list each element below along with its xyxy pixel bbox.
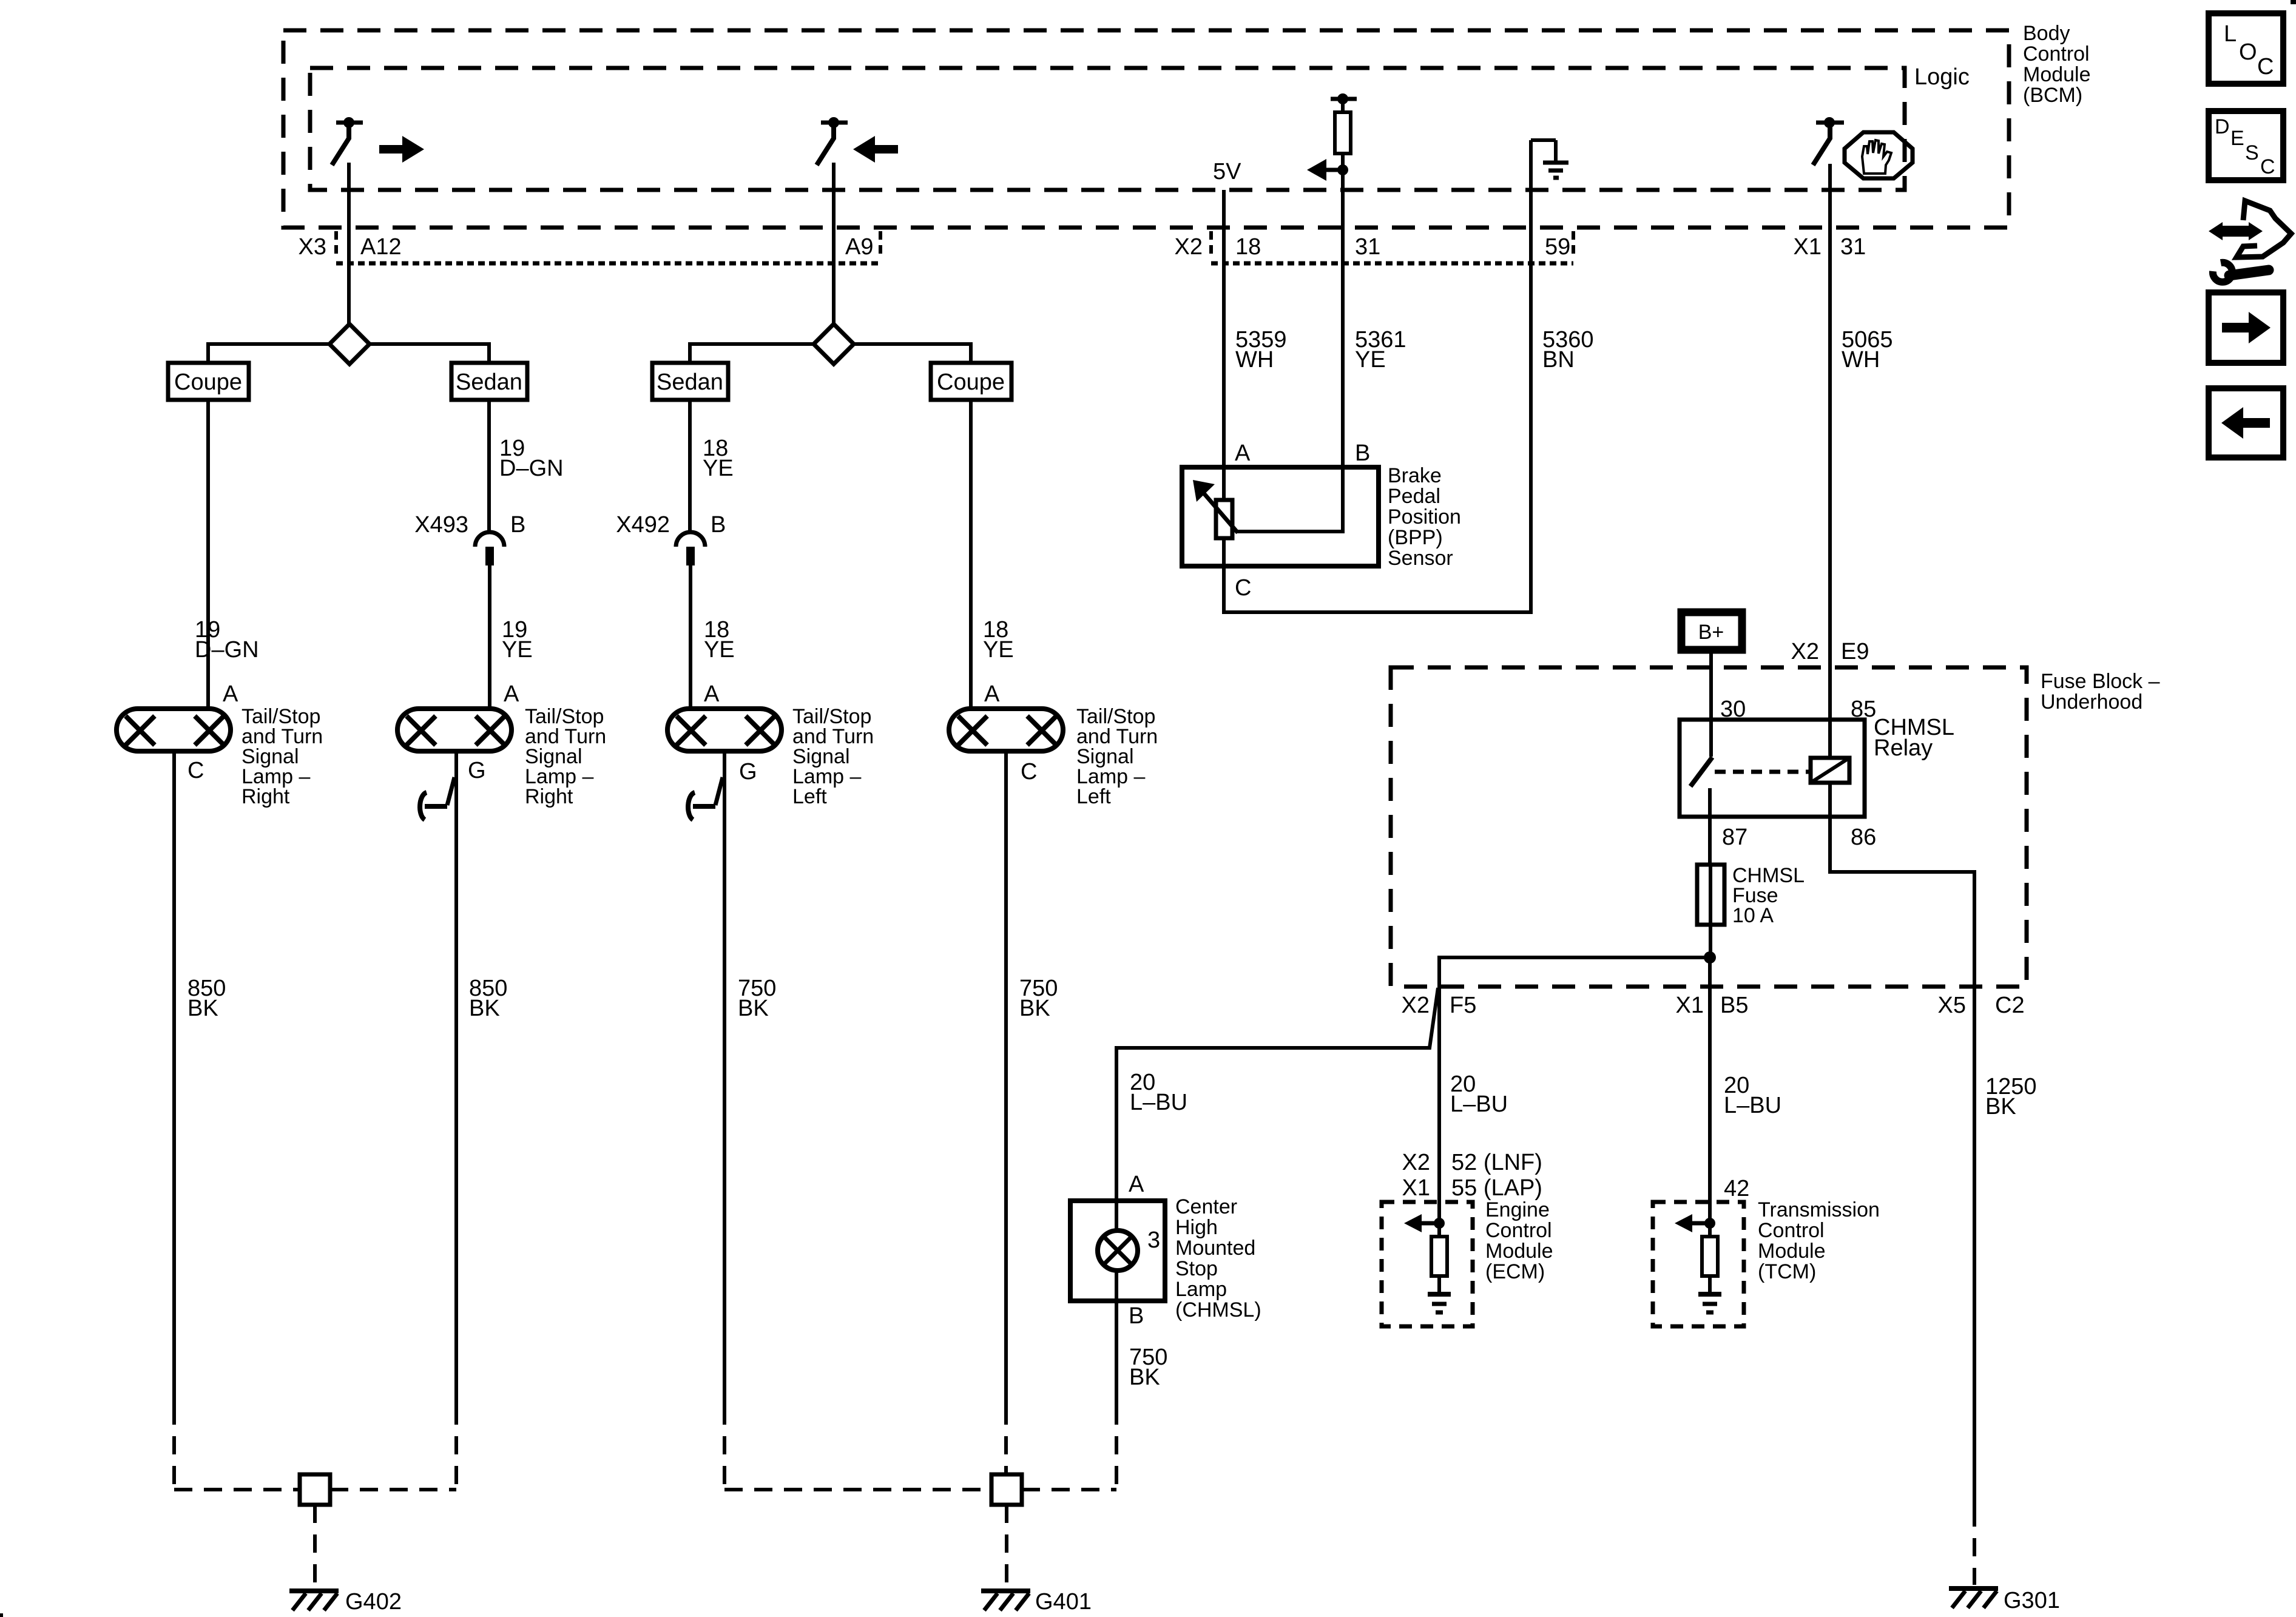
svg-text:E9: E9: [1841, 639, 1869, 664]
case ground tap symbol lamp3: [688, 777, 723, 820]
svg-text:A: A: [223, 681, 238, 707]
svg-text:YE: YE: [703, 456, 734, 481]
pin label A (BPP): [1235, 441, 1251, 466]
TCM junction dot: [1704, 1218, 1715, 1229]
svg-text:Mounted: Mounted: [1175, 1237, 1255, 1260]
wire label 5360 BN: [1542, 327, 1594, 373]
pin label B (X492): [711, 512, 726, 538]
svg-text:S: S: [2245, 141, 2259, 164]
pin label 31: [1355, 234, 1380, 260]
junction dot below fuse: [1704, 951, 1716, 964]
Logic dashed box: [310, 68, 1905, 190]
lamp E1 name: [241, 705, 323, 808]
stop hand octagon icon: [1845, 132, 1913, 178]
BPP sensor name: [1388, 464, 1461, 570]
dashed ground wire column 2: [454, 1406, 458, 1490]
svg-text:Left: Left: [792, 785, 827, 808]
svg-text:Sedan: Sedan: [657, 370, 723, 395]
svg-text:Right: Right: [241, 785, 290, 808]
svg-text:55 (LAP): 55 (LAP): [1451, 1175, 1542, 1201]
wire relay pin 86 to pin C2 (circuit 1250 BK): [1830, 783, 1974, 1508]
svg-text:(BCM): (BCM): [2023, 84, 2082, 107]
svg-text:BK: BK: [1985, 1094, 2016, 1119]
svg-text:A: A: [1235, 441, 1251, 466]
svg-text:L–BU: L–BU: [1130, 1090, 1187, 1115]
ECM name: [1485, 1198, 1553, 1283]
svg-text:D–GN: D–GN: [195, 637, 259, 663]
DESC nav button: [2209, 111, 2283, 180]
svg-text:Lamp: Lamp: [1175, 1278, 1227, 1301]
diamond splice node pair 2: [814, 324, 854, 364]
wire label 19 YE (column 2 lower): [502, 617, 533, 663]
svg-text:Center: Center: [1175, 1195, 1237, 1218]
svg-text:C: C: [2260, 155, 2275, 178]
svg-text:High: High: [1175, 1216, 1218, 1239]
svg-text:G401: G401: [1035, 1589, 1092, 1615]
svg-text:YE: YE: [502, 637, 533, 663]
wire branch to CHMSL lamp (circuit 20 L-BU): [1116, 988, 1438, 1201]
pin label A12: [360, 234, 402, 260]
wire fuse to junction: [1709, 925, 1712, 957]
in-line connector X493: [475, 532, 504, 565]
wire label 5361 YE: [1355, 327, 1406, 373]
back arrow nav button: [2209, 388, 2283, 457]
CHMSL fuse name: [1732, 864, 1805, 927]
internal rail bar above resistor: [1331, 97, 1357, 101]
X493 label: [414, 512, 468, 538]
svg-text:86: 86: [1851, 825, 1876, 850]
svg-text:(ECM): (ECM): [1485, 1260, 1545, 1283]
TCM internal ground: [1698, 1294, 1721, 1312]
svg-text:BK: BK: [1129, 1365, 1160, 1390]
svg-text:31: 31: [1840, 234, 1866, 260]
wire label 750 BK (column 4): [1019, 976, 1058, 1021]
CHMSL relay box: [1680, 720, 1865, 817]
svg-text:BK: BK: [738, 996, 769, 1021]
svg-text:YE: YE: [1355, 347, 1386, 373]
svg-text:Sedan: Sedan: [456, 370, 522, 395]
Sedan box 2: [652, 363, 728, 400]
feedback/repair icon double arrow: [2209, 222, 2263, 240]
svg-text:D: D: [2215, 115, 2230, 138]
svg-text:X1: X1: [1794, 234, 1822, 260]
pin label X5 (C2): [1938, 993, 1966, 1018]
svg-text:18: 18: [1235, 234, 1261, 260]
Sedan box 1: [451, 363, 527, 400]
pin label X2 52 (LNF): [1402, 1150, 1542, 1175]
feedback/repair icon component outline: [2237, 201, 2291, 257]
svg-text:Module: Module: [2023, 63, 2091, 86]
ground G301: [1949, 1588, 1998, 1608]
svg-text:Fuse Block –: Fuse Block –: [2041, 670, 2160, 693]
svg-text:BN: BN: [1542, 347, 1575, 373]
svg-text:X3: X3: [299, 234, 326, 260]
svg-text:E: E: [2230, 127, 2244, 150]
svg-text:X1: X1: [1402, 1175, 1430, 1201]
pin label A lamp4: [984, 681, 1000, 707]
pin label X2 (F5): [1402, 993, 1430, 1018]
wire Sedan2 to splice X492 (circuit 18 YE): [688, 400, 692, 532]
wire Coupe1 to lamp1 pin A (circuit 19 D-GN): [206, 400, 210, 709]
pin label 18: [1235, 234, 1261, 260]
dashed wire to G301: [1973, 1508, 1976, 1585]
svg-text:A: A: [1129, 1172, 1144, 1197]
svg-text:A12: A12: [360, 234, 402, 260]
svg-text:D–GN: D–GN: [499, 456, 564, 481]
in-line connector X492: [676, 532, 705, 565]
ground label G401: [1035, 1589, 1092, 1615]
svg-text:B: B: [1355, 441, 1370, 466]
svg-text:A9: A9: [845, 234, 873, 260]
svg-text:YE: YE: [983, 637, 1014, 663]
lamp E4 Tail/Stop and Turn Signal Lamp - Left (coupe): [949, 709, 1063, 751]
ground G401: [981, 1591, 1030, 1610]
svg-text:B+: B+: [1698, 621, 1724, 644]
BCM name label: [2023, 22, 2091, 107]
svg-text:X2: X2: [1402, 993, 1430, 1018]
wire BCM pin 31 to BPP pin B (circuit 5361 YE): [1237, 170, 1343, 532]
lamp E2 name: [525, 705, 606, 808]
wire label 1250 BK: [1985, 1074, 2037, 1119]
pin label G lamp3: [739, 759, 757, 785]
wire junction to pin F5 branch: [1439, 957, 1710, 1223]
svg-text:Pedal: Pedal: [1388, 485, 1440, 508]
svg-text:31: 31: [1355, 234, 1380, 260]
dashed wire to G401: [1005, 1505, 1008, 1587]
svg-text:Logic: Logic: [1914, 64, 1970, 90]
svg-text:5V: 5V: [1213, 159, 1241, 184]
svg-text:A: A: [504, 681, 519, 707]
BCM internal ground symbol: [1531, 140, 1568, 190]
pin label 85: [1851, 697, 1876, 722]
wire lamp2 G to ground net (circuit 850 BK): [454, 751, 458, 1406]
wire from S2 to pin A9 and diamond: [832, 163, 836, 324]
connector X3/A9 row dotted line: [336, 262, 880, 266]
wire Coupe2 to lamp4 pin A (circuit 18 YE): [969, 400, 973, 709]
wire B+ to relay pin 30: [1709, 653, 1713, 757]
pin label G lamp2: [468, 758, 486, 783]
dashed ground bus pair 2: [724, 1488, 1116, 1491]
pin label C (BPP): [1235, 575, 1251, 601]
svg-text:A: A: [704, 681, 720, 707]
Coupe box 2: [931, 363, 1011, 400]
svg-text:X493: X493: [414, 512, 468, 538]
pin label 31 (X1): [1840, 234, 1866, 260]
pin label X2 (fuse block top): [1791, 639, 1819, 664]
pin label 59: [1545, 234, 1570, 260]
switch S1 (turn signal right, BCM internal): [332, 117, 363, 165]
internal signal arrow (to logic, pointing left): [1307, 159, 1343, 181]
svg-text:10 A: 10 A: [1732, 904, 1774, 927]
svg-text:Right: Right: [525, 785, 573, 808]
ground label G402: [345, 1589, 402, 1615]
lamp E3 name: [792, 705, 874, 808]
pin label X2: [1175, 234, 1203, 260]
pin label B (X493): [510, 512, 525, 538]
svg-text:Left: Left: [1076, 785, 1111, 808]
junction dot on rail: [1337, 93, 1348, 104]
CHMSL fuse 10 A: [1697, 865, 1724, 925]
pin label 86: [1851, 825, 1876, 850]
svg-text:30: 30: [1720, 697, 1746, 722]
relay armature dashed link: [1715, 770, 1809, 774]
svg-text:C2: C2: [1995, 993, 2025, 1018]
Brake Pedal Position (BPP) Sensor box: [1182, 467, 1379, 566]
wire label 18 YE (column 3 upper): [703, 436, 734, 481]
wire X492 to lamp3 pin A (circuit 18 YE): [689, 565, 692, 709]
wire label 18 YE (column 4): [983, 617, 1014, 663]
wire BCM switch S3 to relay coil (circuit 5065 WH): [1828, 164, 1832, 758]
pin label X1: [1794, 234, 1822, 260]
relay switch lever: [1690, 757, 1712, 786]
svg-text:F5: F5: [1450, 993, 1476, 1018]
pin label A lamp2: [504, 681, 519, 707]
svg-text:85: 85: [1851, 697, 1876, 722]
Logic label: [1914, 64, 1970, 90]
pin label C2: [1995, 993, 2025, 1018]
wire lamp4 C to ground net (circuit 750 BK): [1004, 751, 1008, 1406]
svg-text:WH: WH: [1842, 347, 1880, 373]
svg-text:C: C: [2257, 54, 2274, 79]
relay coil: [1811, 758, 1849, 783]
dashed ground wire column 4: [1004, 1406, 1008, 1474]
pin label B (BPP): [1355, 441, 1370, 466]
svg-text:B5: B5: [1720, 993, 1748, 1018]
svg-text:WH: WH: [1235, 347, 1274, 373]
pin label 3 (CHMSL bulb): [1147, 1227, 1160, 1253]
branch wires pair 1: [208, 344, 489, 363]
TCM name: [1758, 1198, 1880, 1283]
svg-text:X2: X2: [1791, 639, 1819, 664]
svg-text:B: B: [711, 512, 726, 538]
svg-text:C: C: [187, 758, 204, 783]
connector tick A9: [879, 231, 882, 259]
dashed ground wire CHMSL: [1115, 1406, 1118, 1490]
lamp E4 name: [1076, 705, 1158, 808]
svg-text:O: O: [2239, 39, 2257, 65]
Center High Mounted Stop Lamp (CHMSL) box: [1070, 1201, 1165, 1301]
X492 label: [616, 512, 670, 538]
svg-text:Transmission: Transmission: [1758, 1198, 1880, 1221]
svg-text:59: 59: [1545, 234, 1570, 260]
Transmission Control Module (TCM) dashed box: [1653, 1202, 1744, 1326]
Fuse Block - Underhood dashed box: [1391, 667, 2027, 987]
svg-text:87: 87: [1722, 825, 1747, 850]
pin label A lamp3: [704, 681, 720, 707]
wire BCM pin 18 to BPP pin A (circuit 5359 WH, 5V ref): [1222, 190, 1226, 500]
svg-text:L: L: [2224, 21, 2237, 47]
diamond splice node pair 1: [329, 324, 370, 364]
wire BPP pin C to BCM pin 59 (circuit 5360 BN): [1224, 190, 1531, 612]
wire label 5065 WH: [1842, 327, 1893, 373]
TCM internal arrow: [1675, 1214, 1710, 1232]
connector tick X3: [334, 231, 338, 259]
LOC nav button: [2209, 13, 2283, 84]
svg-text:Control: Control: [1758, 1219, 1825, 1242]
wire label 750 BK (column 3): [738, 976, 776, 1021]
ECM internal arrow: [1404, 1214, 1439, 1232]
pin label X3: [299, 234, 326, 260]
switch S3 (brake apply, BCM internal): [1813, 117, 1844, 165]
connector tick X2: [1209, 231, 1213, 259]
svg-text:X2: X2: [1402, 1150, 1430, 1175]
svg-text:G301: G301: [2004, 1588, 2060, 1613]
B+ terminal: [1681, 612, 1742, 650]
pin label A (CHMSL): [1129, 1172, 1144, 1197]
pin label 87: [1722, 825, 1747, 850]
ECM internal resistor: [1431, 1223, 1447, 1293]
CHMSL relay name: [1874, 715, 1954, 761]
wire junction to pin B5 branch (TCM): [1708, 957, 1712, 1223]
svg-text:(BPP): (BPP): [1388, 526, 1443, 549]
svg-text:Relay: Relay: [1874, 735, 1933, 761]
pin label X1 (B5): [1676, 993, 1704, 1018]
pin label B (CHMSL): [1129, 1303, 1144, 1329]
svg-text:X5: X5: [1938, 993, 1966, 1018]
svg-text:52 (LNF): 52 (LNF): [1451, 1150, 1542, 1175]
lamp E3 Tail/Stop and Turn Signal Lamp - Left (sedan): [667, 709, 782, 751]
pin label F5: [1450, 993, 1476, 1018]
feedback/repair icon wrench: [2213, 263, 2269, 282]
svg-text:Module: Module: [1758, 1240, 1826, 1263]
svg-text:YE: YE: [704, 637, 735, 663]
ECM junction dot: [1434, 1218, 1445, 1229]
case ground tap symbol lamp2: [420, 777, 454, 820]
pin label C lamp1: [187, 758, 204, 783]
TCM internal resistor: [1702, 1223, 1718, 1293]
svg-text:X2: X2: [1175, 234, 1203, 260]
svg-text:Control: Control: [1485, 1219, 1552, 1242]
left turn arrow icon: [853, 136, 898, 163]
svg-text:B: B: [1129, 1303, 1144, 1329]
5V supply label: [1213, 159, 1241, 184]
wire label 20 L-BU (ECM): [1450, 1072, 1508, 1117]
CHMSL name: [1175, 1195, 1261, 1322]
pin label A9: [845, 234, 873, 260]
wire lamp1 C to ground net (circuit 850 BK): [172, 751, 176, 1406]
wire label 20 L-BU (CHMSL): [1130, 1070, 1187, 1115]
svg-text:C: C: [1235, 575, 1251, 601]
svg-text:Coupe: Coupe: [937, 370, 1005, 395]
svg-text:C: C: [1021, 759, 1037, 785]
pin label A lamp1: [223, 681, 238, 707]
BPP potentiometer: [1193, 480, 1238, 538]
wire CHMSL B to ground net (circuit 750 BK): [1115, 1301, 1118, 1406]
pin label C lamp4: [1021, 759, 1037, 785]
svg-text:3: 3: [1147, 1227, 1160, 1253]
wire label 850 BK (column 2): [469, 976, 507, 1021]
wire label 850 BK (column 1): [187, 976, 226, 1021]
wire Sedan1 to splice X493 (circuit 19 D-GN): [487, 400, 491, 532]
ECM internal ground: [1428, 1294, 1451, 1312]
right turn arrow icon: [379, 136, 424, 163]
junction dot at arrow tap: [1337, 164, 1348, 175]
wire X493 to lamp2 pin A (circuit 19 YE): [488, 565, 491, 709]
page corner mark: [2291, 0, 2296, 4]
svg-text:BK: BK: [1019, 996, 1050, 1021]
ground junction block G402 net: [300, 1474, 330, 1505]
dashed ground wire column 1: [172, 1406, 176, 1490]
Body Control Module (BCM) dashed box: [283, 30, 2009, 228]
svg-text:Control: Control: [2023, 42, 2090, 66]
svg-text:X492: X492: [616, 512, 670, 538]
svg-text:B: B: [510, 512, 525, 538]
pin label E9: [1841, 639, 1869, 664]
svg-text:G: G: [468, 758, 486, 783]
forward arrow nav button: [2209, 292, 2283, 363]
ground G402: [289, 1591, 339, 1610]
wire label 20 L-BU (TCM): [1724, 1073, 1781, 1118]
dashed wire to G402: [313, 1505, 317, 1587]
switch S2 (turn signal left, BCM internal): [817, 117, 848, 165]
ground junction block G401 net: [991, 1474, 1022, 1505]
lamp E1 Tail/Stop and Turn Signal Lamp - Right (coupe): [116, 709, 231, 751]
pin label X1 55 (LAP): [1402, 1175, 1542, 1201]
svg-text:G402: G402: [345, 1589, 402, 1615]
pin label B5: [1720, 993, 1748, 1018]
Coupe box 1: [168, 363, 249, 400]
stray period bottom left: [0, 1613, 3, 1617]
dashed ground wire column 3: [723, 1406, 726, 1490]
svg-text:L–BU: L–BU: [1450, 1092, 1508, 1117]
branch wires pair 2: [690, 344, 971, 363]
wire label 19 D-GN (column 1): [195, 617, 259, 663]
wire lamp3 G to ground net (circuit 750 BK): [723, 751, 726, 1406]
CHMSL bulb: [1098, 1201, 1138, 1301]
ground label G301: [2004, 1588, 2060, 1613]
svg-text:Sensor: Sensor: [1388, 547, 1453, 570]
connector tick 59: [1572, 231, 1575, 259]
svg-text:Body: Body: [2023, 22, 2070, 45]
wire label 19 D-GN (column 2 upper): [499, 436, 564, 481]
svg-text:BK: BK: [469, 996, 500, 1021]
svg-text:Module: Module: [1485, 1240, 1553, 1263]
wire from S1 to pin A12 and diamond: [347, 163, 351, 324]
Engine Control Module (ECM) dashed box: [1382, 1202, 1473, 1326]
svg-text:(CHMSL): (CHMSL): [1175, 1298, 1261, 1322]
wire label 18 YE (column 3 lower): [704, 617, 735, 663]
svg-text:X1: X1: [1676, 993, 1704, 1018]
svg-text:Position: Position: [1388, 505, 1461, 528]
connector X2 row dotted line: [1211, 262, 1573, 266]
svg-text:Brake: Brake: [1388, 464, 1442, 487]
dashed ground bus pair 1: [174, 1488, 456, 1491]
pin label 42: [1724, 1176, 1749, 1201]
Fuse Block name: [2041, 670, 2160, 714]
resistor (BCM internal pull-up): [1335, 99, 1351, 170]
svg-text:L–BU: L–BU: [1724, 1093, 1781, 1118]
wire label 5359 WH: [1235, 327, 1287, 373]
svg-text:42: 42: [1724, 1176, 1749, 1201]
pin label 30: [1720, 697, 1746, 722]
svg-text:BK: BK: [187, 996, 218, 1021]
lamp E2 Tail/Stop and Turn Signal Lamp - Right (sedan): [397, 709, 512, 751]
svg-text:Underhood: Underhood: [2041, 690, 2142, 714]
wire label 750 BK (CHMSL): [1129, 1345, 1167, 1390]
svg-text:Stop: Stop: [1175, 1257, 1218, 1280]
svg-text:(TCM): (TCM): [1758, 1260, 1816, 1283]
svg-text:Engine: Engine: [1485, 1198, 1550, 1221]
svg-text:Coupe: Coupe: [174, 370, 242, 395]
svg-text:G: G: [739, 759, 757, 785]
svg-text:A: A: [984, 681, 1000, 707]
wire relay pin 87 to CHMSL fuse: [1708, 788, 1712, 865]
